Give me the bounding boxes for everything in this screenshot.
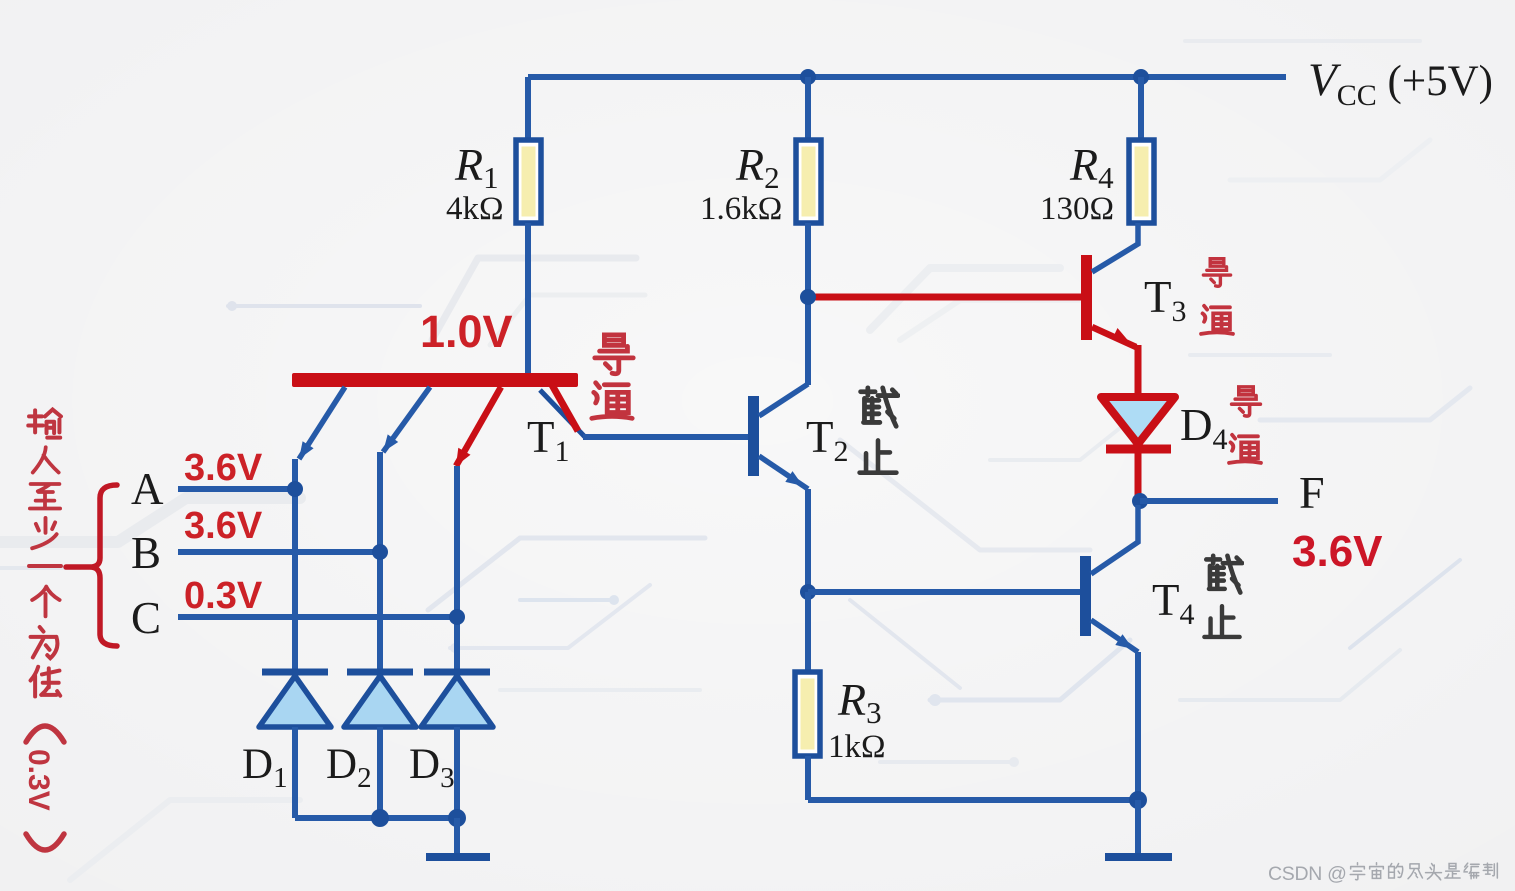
- value 4kΩ: [446, 191, 504, 227]
- wire T3 base (red, conducting): [810, 294, 1082, 301]
- wire D2 to bottom rail: [377, 727, 383, 818]
- svg-text:4kΩ: 4kΩ: [446, 191, 504, 227]
- wire T2 emitter down: [805, 489, 811, 592]
- label 输入至少一个为低（0.3V） vertical note: [22, 410, 64, 850]
- label Vcc (+5V): [1308, 54, 1493, 112]
- brace grouping inputs: [66, 485, 117, 646]
- label T1: [527, 412, 570, 468]
- svg-text:0.3V: 0.3V: [22, 749, 55, 811]
- wire D3 to bottom rail: [454, 727, 460, 818]
- resistor R1: [516, 140, 541, 223]
- wire R3 to bottom rail: [805, 756, 811, 800]
- node input C: [449, 609, 465, 625]
- svg-text:1.0V: 1.0V: [420, 306, 513, 357]
- wire Vcc rail to R2: [805, 77, 811, 140]
- ground (left): [426, 853, 490, 861]
- label 导通 (T3 conducting): [1201, 259, 1233, 334]
- label T4: [1152, 575, 1195, 631]
- wire to ground (right): [1135, 800, 1141, 854]
- wire T1 emitter 3 vertical: [454, 466, 460, 672]
- resistor R3: [795, 672, 820, 756]
- transistor T4 (pull-down, cutoff): [1080, 505, 1138, 652]
- label 截止 (T4 cutoff): [1204, 556, 1242, 637]
- wire input B: [178, 549, 380, 555]
- node bottom rail / T4 emitter: [1129, 791, 1147, 809]
- wire D4 to node F: [1135, 449, 1142, 500]
- wire Vcc top rail: [528, 74, 1286, 80]
- label B: [131, 528, 161, 578]
- svg-text:1.6kΩ: 1.6kΩ: [700, 191, 782, 227]
- label 1.0V: [420, 306, 513, 357]
- svg-text:C: C: [131, 593, 161, 643]
- resistor R4: [1129, 140, 1154, 223]
- wire T1 collector to T2 base: [583, 434, 749, 440]
- svg-text:3.6V: 3.6V: [1292, 527, 1383, 576]
- node F (output): [1132, 493, 1148, 509]
- svg-text:3.6V: 3.6V: [184, 447, 263, 489]
- node junction on Vcc rail above R4: [1133, 69, 1149, 85]
- svg-text:B: B: [131, 528, 161, 578]
- svg-text:VCC (+5V): VCC (+5V): [1308, 54, 1493, 112]
- label A: [131, 464, 164, 514]
- watermark CSDN @宇宙的尽头是编制: [1268, 863, 1497, 885]
- label 导通 (D4 conducting): [1229, 387, 1261, 463]
- diode D3: [421, 672, 493, 727]
- label 3.6V input A: [184, 447, 263, 489]
- label F: [1299, 467, 1325, 518]
- label 3.6V input B: [184, 505, 263, 547]
- label R1: [454, 139, 499, 195]
- value 1.6kΩ: [700, 191, 782, 227]
- transistor T2 (phase splitter, cutoff): [748, 384, 808, 489]
- svg-text:1kΩ: 1kΩ: [828, 729, 886, 765]
- node input B: [372, 544, 388, 560]
- label C: [131, 593, 161, 643]
- diode D4 (red, conducting): [1101, 397, 1175, 449]
- wire Vcc rail to R4: [1138, 77, 1144, 140]
- wire R1 bottom to T1 base: [525, 223, 531, 377]
- label 3.6V output: [1292, 527, 1383, 576]
- label 导通 (T1 conducting): [592, 335, 633, 418]
- wire input A: [178, 486, 295, 492]
- label 截止 (T2 cutoff): [860, 388, 898, 473]
- label R3: [837, 674, 882, 730]
- wire bottom rail R3 to T4 emitter: [808, 797, 1138, 803]
- label T3: [1144, 272, 1187, 328]
- wire node to R3: [805, 592, 811, 672]
- svg-text:CSDN @: CSDN @: [1268, 863, 1347, 885]
- wire to ground (left): [454, 818, 460, 854]
- label R4: [1069, 139, 1114, 195]
- label 0.3V input C: [184, 575, 263, 617]
- value 1kΩ: [828, 729, 886, 765]
- node D3 on rail: [448, 809, 466, 827]
- resistor R2: [796, 140, 821, 223]
- wire T1 emitter 2 vertical: [377, 452, 383, 672]
- transistor T1 (multi-emitter input, conducting, red): [292, 373, 585, 466]
- svg-text:A: A: [131, 464, 164, 514]
- wire D1 to bottom rail: [292, 727, 298, 818]
- svg-text:3.6V: 3.6V: [184, 505, 263, 547]
- label D1: [242, 741, 288, 794]
- node junction on Vcc rail above R2: [800, 69, 816, 85]
- diode D1: [259, 672, 331, 727]
- label T2: [806, 412, 849, 468]
- label R2: [735, 139, 780, 195]
- wire T1 emitter 1 vertical: [292, 459, 298, 672]
- wire input C: [178, 614, 457, 620]
- svg-text:130Ω: 130Ω: [1040, 191, 1114, 227]
- node input A: [287, 481, 303, 497]
- wire T4 base: [808, 589, 1081, 595]
- label D4: [1180, 400, 1228, 456]
- node D2 on rail: [371, 809, 389, 827]
- node T2 collector / T3 base: [800, 289, 816, 305]
- node T2 emitter / R3 / T4 base: [800, 584, 816, 600]
- label D2: [326, 741, 372, 794]
- wire Vcc rail to R1: [525, 77, 531, 140]
- svg-text:F: F: [1299, 467, 1325, 518]
- wire bottom rail (inputs): [295, 815, 457, 821]
- svg-text:0.3V: 0.3V: [184, 575, 263, 617]
- wire R2 bottom to node and T2 collector riser: [805, 223, 811, 385]
- wire T4 emitter down: [1135, 652, 1141, 800]
- ground (right): [1105, 853, 1172, 861]
- diode D2: [344, 672, 416, 727]
- value 130Ω: [1040, 191, 1114, 227]
- wire T3 emitter to D4: [1135, 345, 1142, 397]
- label D3: [409, 741, 455, 794]
- transistor T3 (pull-up, conducting, red): [1081, 223, 1138, 347]
- wire node F to output: [1140, 498, 1278, 504]
